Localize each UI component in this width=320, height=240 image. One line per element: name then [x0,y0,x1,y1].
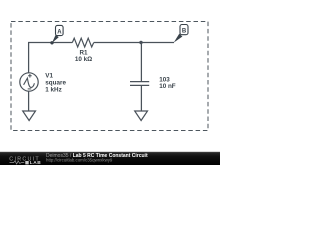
ground (right) [135,111,148,121]
svg-text:10 kΩ: 10 kΩ [75,56,92,63]
svg-text:http://circuitlab.com/c35qwnxk: http://circuitlab.com/c35qwnxkwy9 [46,157,113,162]
voltage source V1 [20,72,67,93]
junction dot at capacitor branch [139,41,142,44]
svg-text:square: square [45,79,66,86]
wire: source to ground [28,91,30,111]
wire: top rail left segment [28,42,72,44]
footer bar [0,152,220,165]
wire: left vertical from top rail to source [28,43,30,74]
svg-text:10 nF: 10 nF [159,83,176,90]
capacitor C1 103 / 10 nF [130,76,176,90]
node A flag [50,25,63,44]
svg-text:B: B [182,29,187,35]
node B flag [174,25,188,43]
wire: capacitor branch down [140,43,142,82]
wire: top rail right segment [94,42,174,44]
wire: capacitor to ground [140,86,142,111]
svg-text:V1: V1 [45,72,53,79]
dashed selection border [11,22,208,131]
svg-text:1 kHz: 1 kHz [45,87,61,94]
CircuitLab logo [9,156,41,166]
svg-text:LAB: LAB [30,160,42,165]
resistor R1 [72,38,93,63]
svg-text:A: A [57,30,62,36]
ground (left) [23,111,36,121]
